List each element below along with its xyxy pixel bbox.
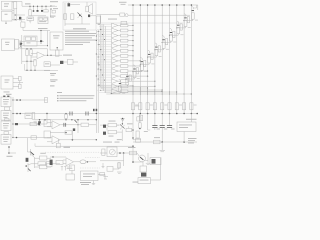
- comparator U2-13: [97, 84, 112, 86]
- resistor R35: [118, 163, 121, 168]
- LED D9: [148, 50, 150, 53]
- wire - q5 ground: [147, 153, 149, 163]
- wire - u10 top: [190, 114, 192, 123]
- label - under U9: [80, 182, 91, 183]
- capacitor C16: [164, 128, 168, 131]
- trimmer symbols pair: [61, 167, 63, 171]
- wire - dashed rail 2: [85, 156, 100, 158]
- wire - U3 outputs: [13, 78, 19, 80]
- capacitor C20 series on bus: [85, 112, 87, 116]
- resistor R33: [102, 149, 105, 155]
- ground - under T1 box: [5, 21, 7, 23]
- wire - dashed rail 1: [45, 151, 100, 153]
- small box top: [137, 117, 141, 121]
- electret microphone MK1: [68, 3, 71, 6]
- LED D10: [141, 58, 143, 61]
- comparator U2-10: [97, 69, 112, 71]
- connector J6 box: [1, 135, 11, 145]
- wire - j7 bus: [35, 119, 50, 121]
- transformer T2 secondary: [15, 40, 19, 50]
- ground - aux: [102, 166, 105, 168]
- comparator U2-1: [97, 23, 112, 25]
- resistor R29: [100, 172, 105, 175]
- capacitor C13 polarized: [103, 125, 106, 128]
- wire - dashed rail 3: [80, 167, 100, 169]
- wire - rail133 lower: [132, 114, 134, 140]
- IC U7 small box: [70, 165, 75, 171]
- IC U12 tall box: [50, 32, 63, 50]
- wire - T2 to osc rail: [19, 40, 22, 42]
- ground - j7: [34, 120, 37, 122]
- regulator U13 LM317 block: [24, 36, 37, 46]
- microphone preamp enclosure box: [63, 2, 96, 30]
- connector J5 box: [1, 121, 11, 131]
- wire - osc mid rail: [22, 60, 34, 62]
- wire - +12V top bus: [22, 5, 57, 7]
- resistor ladder R47: [144, 60, 146, 66]
- resistor R24: [65, 131, 72, 134]
- wire - emitter rail: [65, 23, 90, 25]
- comparator U2-14: [97, 89, 112, 91]
- wire - output fan to rails: [98, 85, 134, 87]
- capacitor C2: [33, 6, 35, 10]
- IC U8 box: [66, 174, 75, 180]
- op-amp U5b: [52, 136, 60, 144]
- op-amp U4a oscillator: [37, 52, 45, 59]
- wire - mic internal top: [70, 4, 80, 6]
- LED D7: [163, 36, 165, 39]
- node - column junctions: [12, 99, 13, 100]
- diode D19: [140, 166, 147, 172]
- LED current resistors R10-R18: [131, 103, 134, 110]
- capacitor C12 under U6: [70, 166, 72, 169]
- potentiometer RV3: [126, 128, 132, 131]
- LED D4: [184, 14, 186, 17]
- ground - right: [161, 142, 163, 150]
- resistor ladder R46: [151, 53, 153, 59]
- wire - vertical tie: [71, 131, 73, 140]
- capacitor C17: [171, 128, 175, 131]
- capacitor C4 output: [88, 15, 90, 18]
- comparator U2-4: [97, 39, 112, 41]
- diode D15: [73, 128, 75, 131]
- op-amp U5a: [52, 121, 60, 129]
- wire - rectifier rails: [13, 1, 15, 21]
- connector J1 block: [38, 17, 48, 24]
- wire - osc bottom rail: [25, 69, 51, 71]
- resistor R21: [57, 47, 58, 48]
- resistor R20 osc damper: [34, 60, 36, 66]
- resistor R30: [108, 123, 117, 126]
- resistor R31: [108, 130, 117, 133]
- terminal marks above J3: [3, 96, 5, 97]
- connector box - out: [47, 161, 53, 166]
- wire - meter bus: [100, 152, 107, 154]
- capacitor C18: [40, 31, 42, 41]
- LED D12: [126, 72, 128, 75]
- wire - LED rail 5: [161, 5, 163, 114]
- wire - reference divider rails: [95, 30, 97, 133]
- wire - u11: [113, 168, 119, 170]
- wire - LM317 right drop: [47, 31, 49, 46]
- capacitor C1: [29, 6, 31, 9]
- connector J4 box: [1, 111, 11, 121]
- diode D1 bridge element: [19, 17, 21, 19]
- zener diode Z1: [121, 118, 125, 121]
- transistor Q2: [30, 152, 34, 156]
- capacitor C11 under U6: [67, 166, 69, 169]
- resistor R5 signal: [120, 13, 125, 16]
- resistor R42 on feed 2: [121, 21, 127, 24]
- connector J7 box: [25, 113, 32, 119]
- regulator U1 7805 box: [27, 17, 34, 21]
- wire - q4 row: [100, 124, 108, 126]
- wire - osc feedback: [47, 49, 49, 55]
- LED D13: [119, 80, 121, 83]
- resistor R6: [19, 76, 22, 80]
- resistor R43 bus drop: [65, 113, 67, 116]
- IC U11 tiny box: [107, 166, 113, 171]
- resistor R28: [56, 160, 63, 164]
- wire - audio signal line: [97, 14, 121, 16]
- capacitor C5 pair: [13, 99, 47, 101]
- node - aux taps: [50, 1, 58, 2]
- wire - mic bias rail: [64, 3, 66, 26]
- wire - lower rail: [100, 160, 124, 162]
- resistor R9: [30, 50, 32, 56]
- diode D18: [139, 123, 142, 128]
- resistor R19 below bus: [139, 115, 142, 121]
- resistor ladder R44: [165, 39, 167, 45]
- net label: [6, 94, 12, 95]
- label - mic box: [73, 28, 86, 29]
- wire - row at 137.5: [13, 137, 51, 139]
- connector J3 box: [1, 97, 11, 107]
- main control block U9: [81, 171, 99, 181]
- capacitor C10: [63, 123, 65, 127]
- transformer T1 secondary box: [2, 11, 13, 21]
- label box - level: [44, 120, 51, 127]
- capacitor C14 polarized: [103, 132, 106, 135]
- diode D2: [37, 6, 39, 10]
- wire - left drop: [27, 138, 29, 152]
- wire - LM317 bus: [22, 27, 24, 30]
- label box under J5: [4, 132, 9, 135]
- diode pair near rail: [93, 109, 95, 111]
- wire - mid rail: [30, 15, 46, 17]
- comparator U2-6: [97, 49, 112, 51]
- transistor Q4: [120, 124, 125, 128]
- IC U3 block: [1, 76, 13, 89]
- resistor R3b: [64, 14, 67, 20]
- wire - link between resistor tops: [135, 105, 140, 107]
- transistor Q1: [78, 13, 83, 18]
- wire - link R30 R31: [106, 127, 108, 130]
- resistor R8: [26, 50, 28, 56]
- LED D6: [170, 28, 172, 31]
- legend text right: [188, 137, 197, 140]
- resistor R38 row4: [31, 136, 37, 139]
- regulator U10 box: [177, 122, 196, 132]
- resistor ladder R45: [158, 46, 160, 52]
- resistor R7: [19, 84, 22, 88]
- wire - grid horizontal feed 2: [97, 22, 184, 24]
- wire - LED matrix top bus: [128, 4, 198, 6]
- wire - LM317 rails: [20, 41, 44, 43]
- label box: [135, 139, 140, 143]
- wire - LED matrix right edge: [197, 5, 199, 10]
- resistor R23 vertical: [32, 113, 35, 120]
- wire - LED rail 1: [132, 5, 134, 114]
- transistor Q3: [27, 163, 29, 172]
- relay K1 box: [138, 178, 151, 184]
- node - input connector circle: [125, 14, 128, 17]
- wire - osc top rail: [20, 48, 48, 50]
- LED D11: [133, 65, 135, 68]
- wire - to regulator: [14, 14, 25, 16]
- wire - main horizontal supply bus: [13, 113, 197, 115]
- node - divider taps: [98, 31, 99, 32]
- resistor R25: [35, 157, 40, 159]
- label - q4: [117, 138, 122, 141]
- resistor R36 row1 end: [45, 98, 48, 103]
- LED D8: [155, 43, 157, 46]
- resistor R1: [45, 6, 47, 9]
- wire - q3 out: [31, 163, 38, 165]
- comparator U2-2: [97, 28, 112, 30]
- wire - relay right: [151, 179, 161, 181]
- diode D20: [20, 43, 22, 45]
- net label - osc out: [63, 55, 72, 56]
- wire - q2 emitter: [34, 158, 36, 169]
- op-amp U6: [66, 158, 74, 166]
- resistor R22: [68, 59, 74, 64]
- label box under J4: [5, 119, 10, 121]
- capacitor C7 pair on bus: [16, 113, 18, 115]
- comparator U2-7: [97, 54, 112, 56]
- resistor R34: [130, 151, 137, 155]
- wire - branch: [104, 175, 106, 180]
- resistor ladder R49: [129, 75, 131, 81]
- node - bus junctions: [132, 113, 134, 115]
- wire - mid rail: [50, 156, 66, 158]
- wire - osc verticals: [26, 56, 28, 71]
- capacitor C19 series on bus: [69, 112, 71, 116]
- wire - LED rail 8: [183, 5, 185, 114]
- node - rail junction dots: [15, 14, 16, 15]
- wire - LED rail 4: [154, 5, 156, 114]
- resistor R26: [35, 166, 40, 168]
- resistor R3 mic load: [71, 14, 74, 20]
- comparator U2-5: [97, 44, 112, 46]
- wire - LED rail 9: [190, 5, 192, 114]
- comparator U2-11: [97, 74, 112, 76]
- label box - osc: [44, 62, 50, 67]
- varistor RV2: [80, 160, 86, 164]
- capacitor C15: [157, 128, 161, 131]
- transformer T1 primary winding: [14, 2, 17, 9]
- wire - LED rail 3: [147, 5, 149, 114]
- transistor Q5: [139, 155, 146, 162]
- wire - transformer outputs: [12, 1, 14, 3]
- resistor R37 row3: [30, 122, 37, 125]
- ground - column: [8, 146, 10, 153]
- legend note bullets: [57, 91, 62, 94]
- resistor R2: [52, 10, 55, 13]
- ground - power: [29, 20, 31, 22]
- capacitor C9 polarized: [39, 120, 41, 121]
- meter M1 box: [107, 147, 117, 157]
- wire - tie at y119.8: [50, 119, 96, 121]
- resistor ladder R43: [173, 31, 175, 37]
- note text paragraph: [65, 30, 89, 33]
- label box - level 2: [44, 131, 51, 138]
- wire - LED rail 6: [169, 5, 171, 114]
- net label - VCC: [51, 17, 55, 19]
- LED D5: [177, 21, 179, 24]
- transistor Q7 small: [75, 120, 78, 123]
- resistor R32: [136, 131, 139, 138]
- wire - u10 bottom: [183, 132, 185, 143]
- diode D17: [50, 160, 53, 165]
- resistor R41 on ground bus: [154, 140, 161, 144]
- wire - connector column rail: [12, 97, 14, 138]
- resistor ladder R42: [180, 24, 182, 30]
- diode D16: [26, 158, 29, 162]
- connector J2 line-in box: [96, 16, 101, 24]
- wire - rail 147 drop: [147, 114, 149, 131]
- resistor ladder R48: [136, 68, 138, 74]
- switch S1 box: [150, 158, 161, 165]
- wire - relay feed: [132, 146, 134, 162]
- wire - LED rail 7: [176, 5, 178, 114]
- wire - osc left return: [24, 64, 26, 70]
- wire - fb line: [50, 132, 65, 134]
- resistor R27: [38, 162, 46, 166]
- net label - aux2: [50, 79, 58, 80]
- net label - aux1: [50, 73, 56, 74]
- LED D3: [192, 7, 194, 10]
- comparator U2-12: [97, 79, 112, 81]
- wire - row at 124: [13, 123, 47, 125]
- wire - LED rail 2: [139, 5, 141, 114]
- transistor Q6 dark: [141, 173, 146, 177]
- wire - U9 right: [98, 174, 105, 176]
- wire - grid horizontal feed 1: [128, 14, 190, 16]
- capacitor C8: [60, 61, 63, 64]
- ground - u11: [117, 171, 122, 173]
- wire - tie 133-141: [133, 139, 141, 141]
- wire - lower link: [50, 64, 60, 66]
- comparator U2-9: [97, 64, 112, 66]
- wire - drop from bus at 47: [46, 114, 48, 125]
- trimmer RV1: [56, 143, 60, 148]
- transformer T1 primary box: [2, 1, 13, 10]
- transformer T2 box: [2, 39, 15, 51]
- wire - main out line: [35, 145, 133, 147]
- comparator U2-8: [97, 59, 112, 61]
- resistor ladder R41: [187, 17, 189, 23]
- capacitor C3: [41, 6, 43, 10]
- net label - aux3: [50, 85, 55, 86]
- comparator U2-3: [97, 33, 112, 35]
- wire - down from U7: [71, 171, 73, 175]
- speaker LS1: [86, 6, 89, 12]
- wire - lower ground bus: [133, 141, 197, 143]
- ground - U9: [93, 181, 95, 184]
- junction box above LM317: [21, 22, 25, 27]
- label box under J3: [5, 107, 10, 110]
- resistor R39 on U5a out: [81, 123, 89, 126]
- wire - U6 output: [74, 161, 80, 163]
- label above J3: [4, 91, 10, 94]
- wire - ladder top feed: [193, 7, 197, 9]
